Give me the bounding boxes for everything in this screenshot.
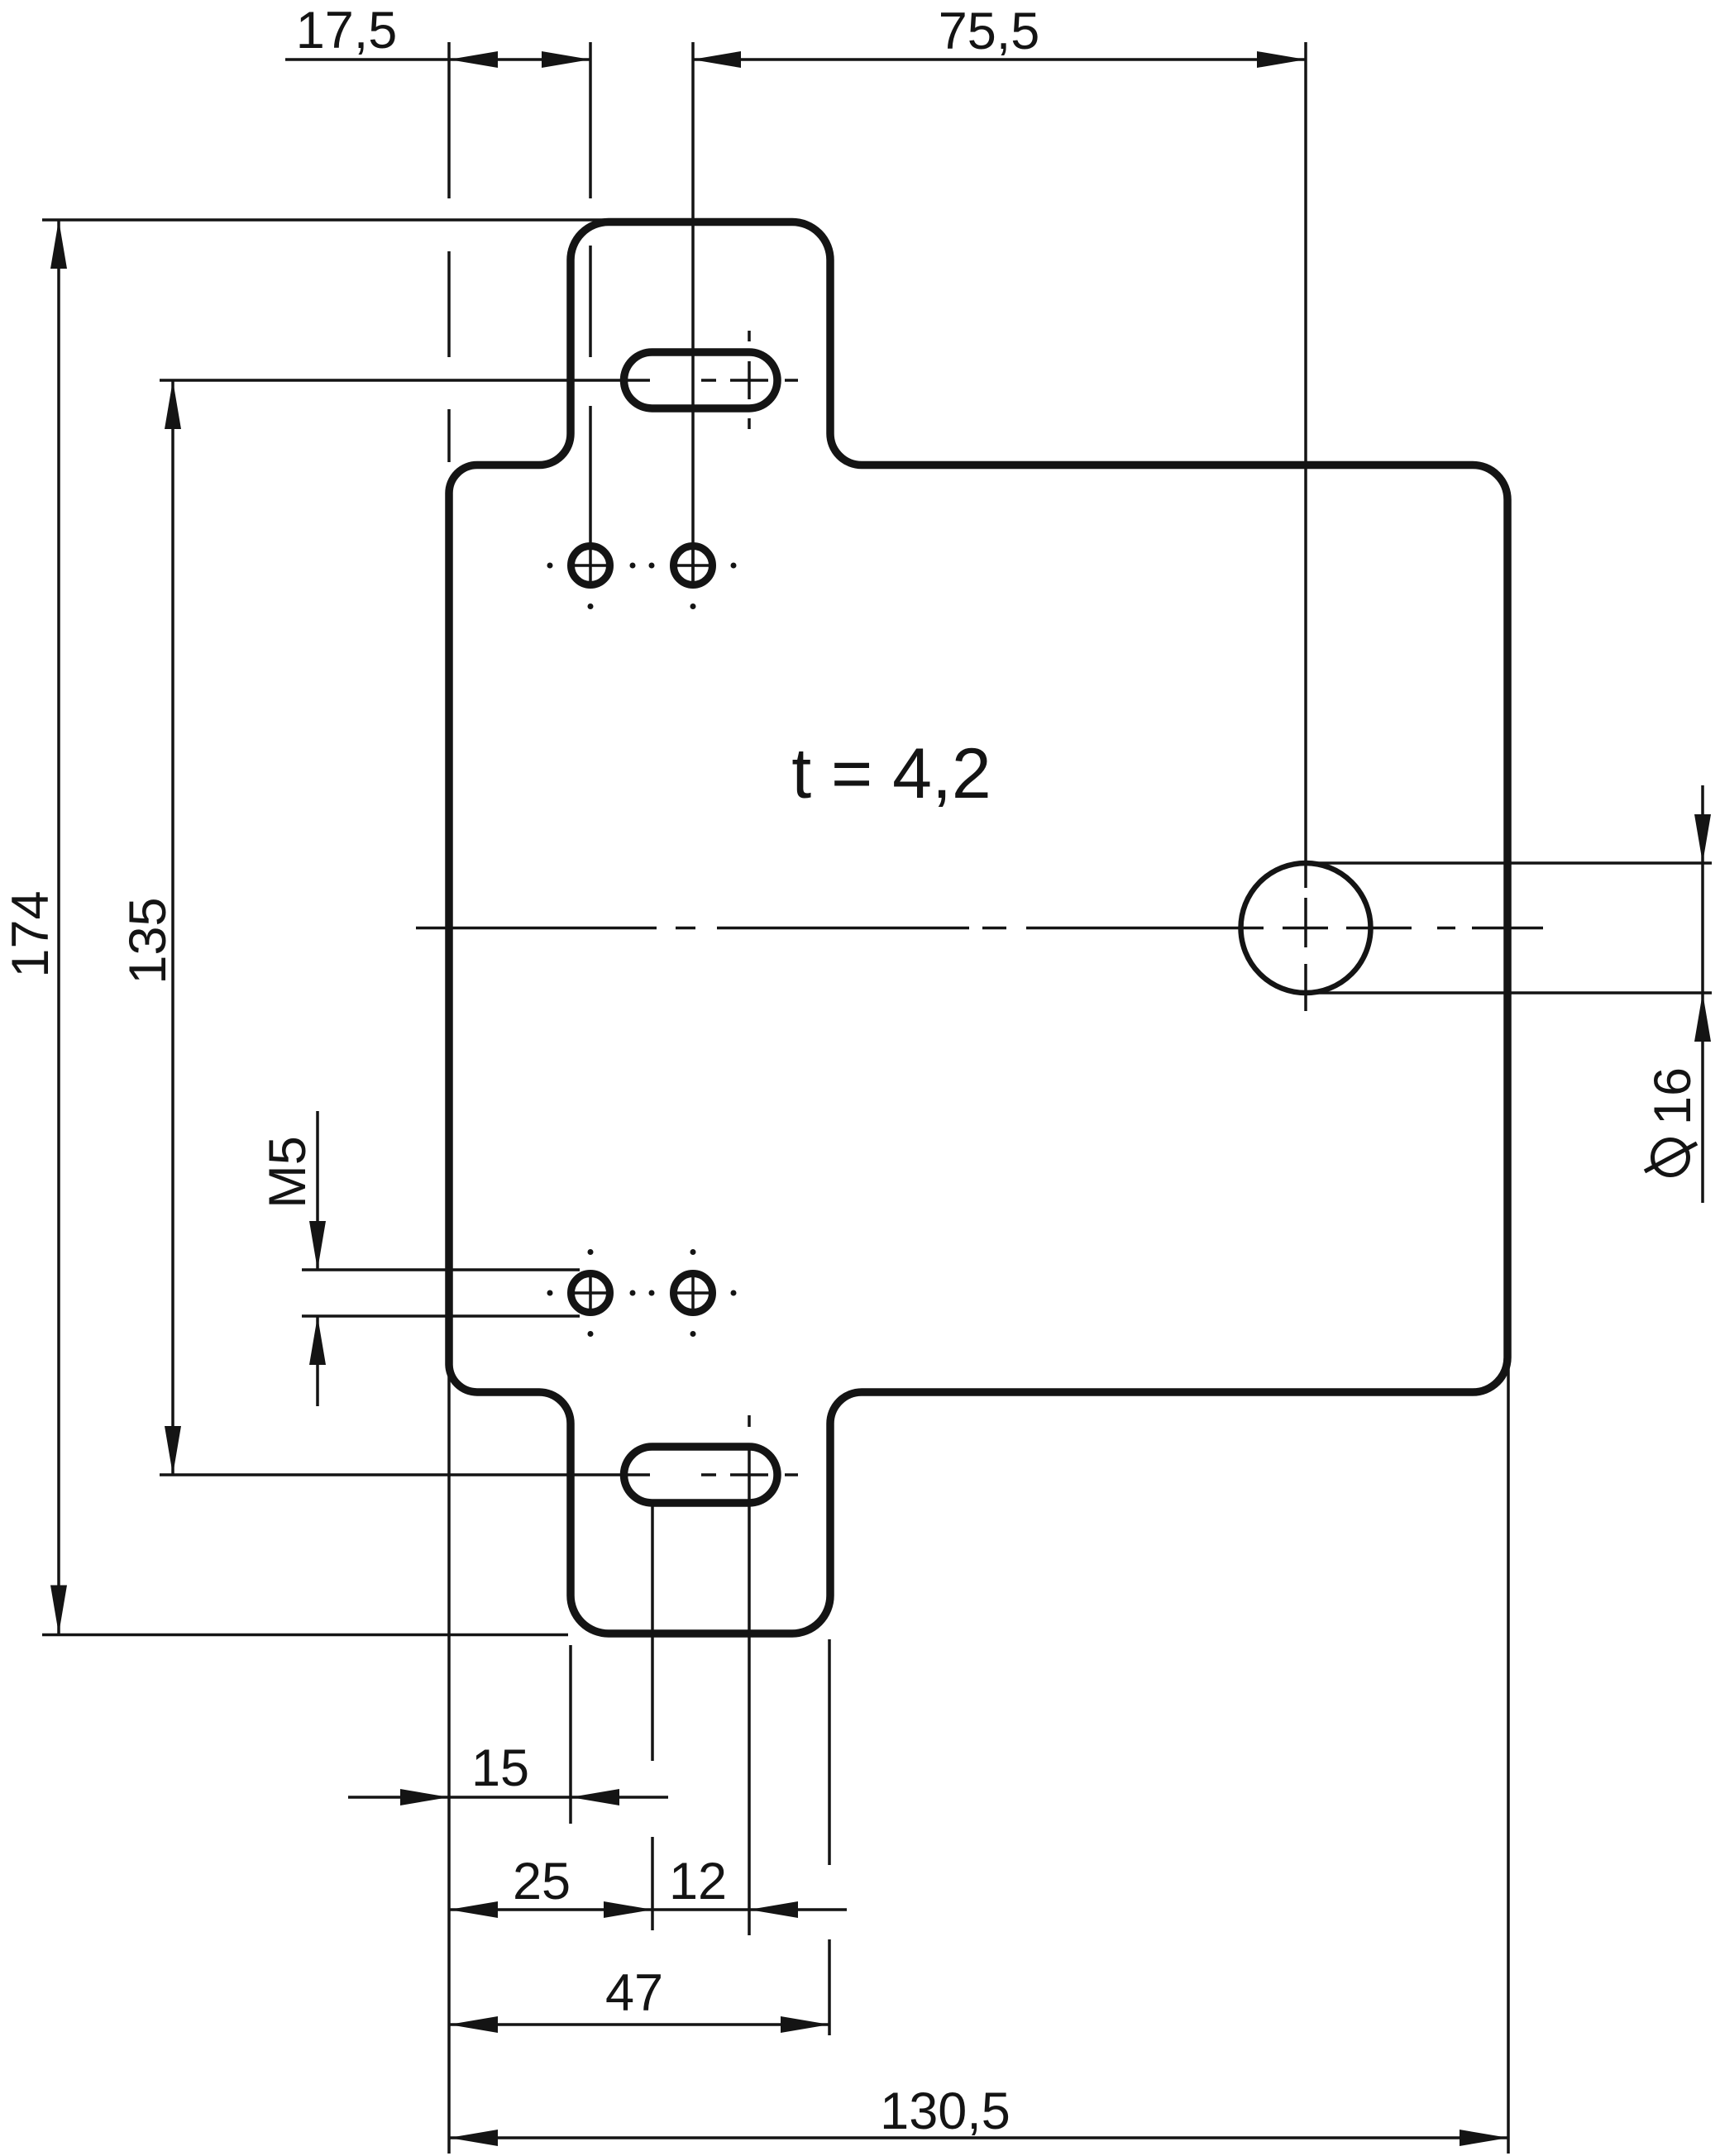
svg-text:16: 16 [1644,1067,1702,1125]
arrow M5 leader [309,1221,326,1270]
arrow 12 right (outside) [749,1901,798,1918]
dimension line 25 and 12 [449,1908,847,1911]
top slot center dashes [701,379,798,382]
arrow 47 right [781,2016,829,2033]
axis line slot right arc center, bottom slot + extension (12) [748,1415,751,1935]
extension line M5 top tangent [302,1268,580,1271]
arrow 17,5 right [542,51,590,68]
hole D16 [1241,863,1371,993]
arrow 130,5 left [449,2130,498,2146]
bottom slot (obround) [624,1447,778,1503]
arrow 75,5 right [1257,51,1306,68]
bottom slot center dashes [701,1473,798,1476]
arrow 174 bottom [50,1586,67,1634]
svg-text:47: 47 [605,1964,663,2022]
arrow 135 top [165,380,181,429]
arrow 135 bottom [165,1426,181,1475]
svg-text:M5: M5 [259,1136,317,1209]
arrow 25 left [449,1901,498,1918]
M5 crosshair top-right [673,546,714,586]
dimension line 15 [348,1796,668,1799]
svg-text:17,5: 17,5 [296,2,398,60]
axis line left M5 hole column [589,42,592,546]
leader line M5 [316,1111,319,1406]
svg-text:75,5: 75,5 [939,2,1040,60]
arrow 174 top [50,220,67,269]
extension line bottom of plate (174 bottom) [42,1634,568,1637]
axis line plate left edge below plate [447,1369,451,2154]
axis line slot left arc center below (25) [651,1503,654,1930]
M5 hole bottom-left [571,1274,610,1313]
M5 crosshair top-left [571,546,611,586]
arrow 15 left (outside) [400,1789,449,1805]
dimension line 47 [449,2023,829,2026]
arrow D16 top (outside) [1694,814,1711,863]
svg-text:t = 4,2: t = 4,2 [791,734,991,813]
svg-text:130,5: 130,5 [880,2082,1010,2140]
arrow 15 right (outside) [571,1789,619,1805]
dimension line 17,5 [285,58,590,61]
M5 hole bottom-right [674,1274,713,1313]
dimension line 174 [57,220,60,1634]
extension line D16 top tangent [1308,861,1712,865]
axis line slot right arc center, top slot cross [748,331,751,429]
dimension line 130,5 [449,2136,1508,2139]
extension line bottom tab right edge (47) [828,1639,831,2035]
dimension line 135 [171,380,174,1475]
extension line M5 bottom tangent [302,1314,580,1318]
svg-text:174: 174 [2,890,60,977]
M5 hole top-left [571,546,610,585]
M5 crosshair bottom-left [571,1273,611,1314]
arrow 25 right [604,1901,652,1918]
svg-text:12: 12 [669,1853,727,1910]
arrow M5 leader lower [309,1316,326,1365]
M5 crosshair bottom-right [673,1273,714,1314]
center mark dots [547,563,737,1338]
arrow D16 bottom (outside) [1694,993,1711,1042]
extension line bottom slot center (135 bottom) [160,1473,650,1476]
dimension line D16 [1701,785,1704,1203]
horizontal centerline of plate (dash-dot) [416,927,1543,930]
M5 hole top-right [674,546,713,585]
arrow 17,5 left [449,51,498,68]
svg-text:135: 135 [119,897,177,984]
dimension line 75,5 [692,58,1306,61]
svg-text:25: 25 [513,1853,571,1910]
extension line D16 bottom tangent [1308,991,1712,995]
arrow 130,5 right [1460,2130,1508,2146]
extension line D16 circle axis (75,5 right extension) [1304,42,1307,1011]
svg-text:15: 15 [471,1739,529,1797]
axis line plate left edge above plate [447,42,451,462]
arrow 47 left [449,2016,498,2033]
extension line top slot center (135 top) [160,379,650,382]
diameter symbol of D16 label [1645,1140,1697,1176]
arrow 75,5 left [692,51,741,68]
extension line top of plate (174 top) [42,218,611,222]
plate outline [449,222,1507,1634]
extension line bottom tab left edge (15) [569,1645,572,1824]
top slot (obround) [624,352,778,408]
axis line right M5 hole column (75,5 left extension) [691,42,695,586]
extension line plate right edge below (130,5) [1507,1364,1510,2154]
